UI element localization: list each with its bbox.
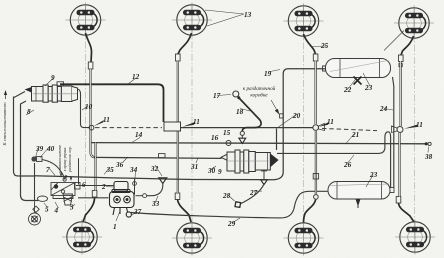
end cap 38 xyxy=(425,142,428,145)
fitting W7 xyxy=(314,195,319,200)
pipe cluster drop xyxy=(34,163,36,201)
junction 11c xyxy=(313,125,319,131)
leader at W4 xyxy=(384,31,404,51)
compressor outlet pipe 10 xyxy=(78,89,91,128)
wheel rear W5 xyxy=(62,220,102,255)
part 6 xyxy=(75,183,81,190)
hose W8 xyxy=(399,203,415,222)
svg-text:к крану управл.: к крану управл. xyxy=(63,147,67,172)
valve 16 xyxy=(226,141,231,146)
pipe 24 xyxy=(393,77,394,188)
svg-text:29: 29 xyxy=(227,220,236,228)
pipe to rear reservoir left xyxy=(315,131,317,195)
fitting 39/40 xyxy=(31,156,36,161)
hidden pipe dashed xyxy=(322,128,377,130)
fitting on reservoir2 left xyxy=(313,174,318,180)
svg-text:30: 30 xyxy=(207,167,216,175)
pipe unit to reservoir2 right xyxy=(277,132,391,188)
pipe W6 riser xyxy=(177,131,179,193)
wheel rear W8 xyxy=(395,220,435,255)
svg-text:14: 14 xyxy=(135,131,143,139)
fitting reservoir2 right xyxy=(388,188,394,193)
svg-text:17: 17 xyxy=(213,92,221,100)
pipe cluster feed xyxy=(78,158,80,184)
svg-text:37: 37 xyxy=(133,208,142,216)
bracket xyxy=(51,183,75,196)
svg-text:7: 7 xyxy=(46,166,50,174)
pipe cluster to valve top xyxy=(76,185,114,187)
svg-text:20: 20 xyxy=(292,112,301,120)
svg-text:2: 2 xyxy=(101,183,106,191)
svg-text:9: 9 xyxy=(218,168,222,176)
fitting W8 xyxy=(396,197,401,204)
Y fitting on long run xyxy=(261,180,268,185)
svg-text:31: 31 xyxy=(190,163,198,171)
pipe 20 drop to unit xyxy=(276,129,278,151)
svg-text:23: 23 xyxy=(369,171,378,179)
fitting on pipe 36 xyxy=(159,154,166,158)
pipe 8b xyxy=(21,101,39,201)
svg-text:34: 34 xyxy=(129,166,138,174)
wheel front-right W2 xyxy=(172,3,212,38)
svg-text:11: 11 xyxy=(327,118,334,126)
funnel 32 xyxy=(159,178,167,184)
svg-text:36: 36 xyxy=(115,161,124,169)
flow arrow wiper xyxy=(5,92,7,99)
svg-text:19: 19 xyxy=(264,70,272,78)
pipe W5 riser xyxy=(94,143,96,191)
branch fitting transfer case xyxy=(280,114,284,118)
svg-text:к раздаточной: к раздаточной xyxy=(243,85,276,92)
fitting 15 bulb xyxy=(240,131,244,135)
svg-text:23: 23 xyxy=(364,84,373,92)
pipe 33 loop xyxy=(147,183,163,195)
arrow 11a xyxy=(94,120,105,126)
svg-text:11: 11 xyxy=(103,116,110,124)
wheel rear W6 xyxy=(172,221,212,256)
pipe 14 / 21 xyxy=(91,143,428,144)
svg-text:33: 33 xyxy=(151,200,160,208)
leader 13 xyxy=(205,10,244,26)
oval link xyxy=(38,196,48,201)
svg-text:К стеклоочистителю: К стеклоочистителю xyxy=(2,102,7,147)
fitting W6 xyxy=(175,193,180,200)
hose W6 xyxy=(178,199,192,222)
wheel front-left W1 xyxy=(66,3,106,38)
gauge xyxy=(33,206,39,212)
pipe 27 xyxy=(240,184,264,204)
svg-text:15: 15 xyxy=(223,129,231,137)
pipe W2 riser xyxy=(177,61,179,122)
reservoir1 left neck xyxy=(323,66,326,71)
svg-text:27: 27 xyxy=(249,189,258,197)
valve 1 body xyxy=(110,192,135,208)
centerline axle 3 xyxy=(303,5,305,254)
arrow 11d xyxy=(404,125,418,129)
wheel mid-left W3 xyxy=(284,4,324,39)
fitting W5 xyxy=(92,191,97,198)
connector on long run xyxy=(63,178,66,181)
arrow 11c xyxy=(319,122,329,127)
junction manifold front xyxy=(164,122,181,131)
compressor head stub xyxy=(57,82,64,86)
pipe front-axle header L2 xyxy=(95,127,162,129)
svg-text:11: 11 xyxy=(416,121,423,129)
wheel rear W7 xyxy=(284,221,324,256)
compressor intake diagonal xyxy=(14,92,25,98)
svg-text:13: 13 xyxy=(244,11,252,19)
hose W3 xyxy=(304,34,316,54)
fitting 28 xyxy=(235,202,241,208)
pipe to W8 xyxy=(398,133,400,197)
unit nozzle arrow xyxy=(270,154,278,168)
hose W1 xyxy=(86,33,92,62)
valve 17 xyxy=(233,91,239,97)
svg-text:26: 26 xyxy=(343,161,352,169)
svg-text:3: 3 xyxy=(69,204,74,212)
pipe W1 drop xyxy=(91,69,97,157)
pipe 18 xyxy=(240,99,262,132)
tee 15 xyxy=(239,138,246,143)
wheel mid-right W4 xyxy=(394,6,434,41)
pipe 7 / 30 long run xyxy=(34,69,326,180)
pipe 8 to wiper xyxy=(14,97,35,177)
unit drain stem xyxy=(263,171,265,180)
drain cock 22 xyxy=(354,77,362,85)
svg-text:9: 9 xyxy=(51,74,55,82)
centerline axle 1 xyxy=(85,4,87,253)
pipe 34 drop xyxy=(134,179,136,195)
pipe 29 xyxy=(131,191,328,218)
arrow 11b xyxy=(183,122,196,127)
svg-text:раздаточн. кор.: раздаточн. кор. xyxy=(68,146,72,173)
hose W4 xyxy=(401,36,414,55)
fitting W1 xyxy=(88,62,93,69)
drain valve arrow xyxy=(356,199,361,207)
svg-text:11: 11 xyxy=(193,118,200,126)
junction 11d xyxy=(397,127,403,133)
valve 2 top box xyxy=(114,182,128,192)
svg-text:6: 6 xyxy=(82,181,86,189)
fitting W4 xyxy=(399,55,404,62)
svg-text:16: 16 xyxy=(211,134,219,142)
arrows under texts xyxy=(60,173,72,181)
pipe valve feed xyxy=(78,197,109,199)
svg-text:21: 21 xyxy=(351,131,359,139)
svg-text:коробке: коробке xyxy=(250,92,268,99)
svg-text:к пневмосистеме: к пневмосистеме xyxy=(58,145,62,173)
svg-text:39: 39 xyxy=(35,145,44,153)
svg-text:12: 12 xyxy=(132,73,140,81)
arrow transfer-case text xyxy=(271,100,278,113)
pipe W3 drop xyxy=(314,61,316,124)
centerline axle 4 xyxy=(414,7,416,253)
svg-text:38: 38 xyxy=(424,153,433,161)
pipe W4 drop xyxy=(399,61,401,126)
centerline axle 2 xyxy=(191,4,193,254)
bell 3 xyxy=(63,194,73,205)
hose W7 xyxy=(304,199,316,222)
hose W5 xyxy=(83,197,95,222)
fitting W3 xyxy=(313,54,318,61)
fitting W2 xyxy=(176,54,181,61)
hose W2 xyxy=(178,33,192,54)
svg-text:4: 4 xyxy=(54,207,59,215)
valve stems xyxy=(113,208,128,216)
pipe 36 to center unit xyxy=(94,157,222,158)
junction W1 xyxy=(89,125,94,130)
svg-text:1: 1 xyxy=(113,223,117,231)
